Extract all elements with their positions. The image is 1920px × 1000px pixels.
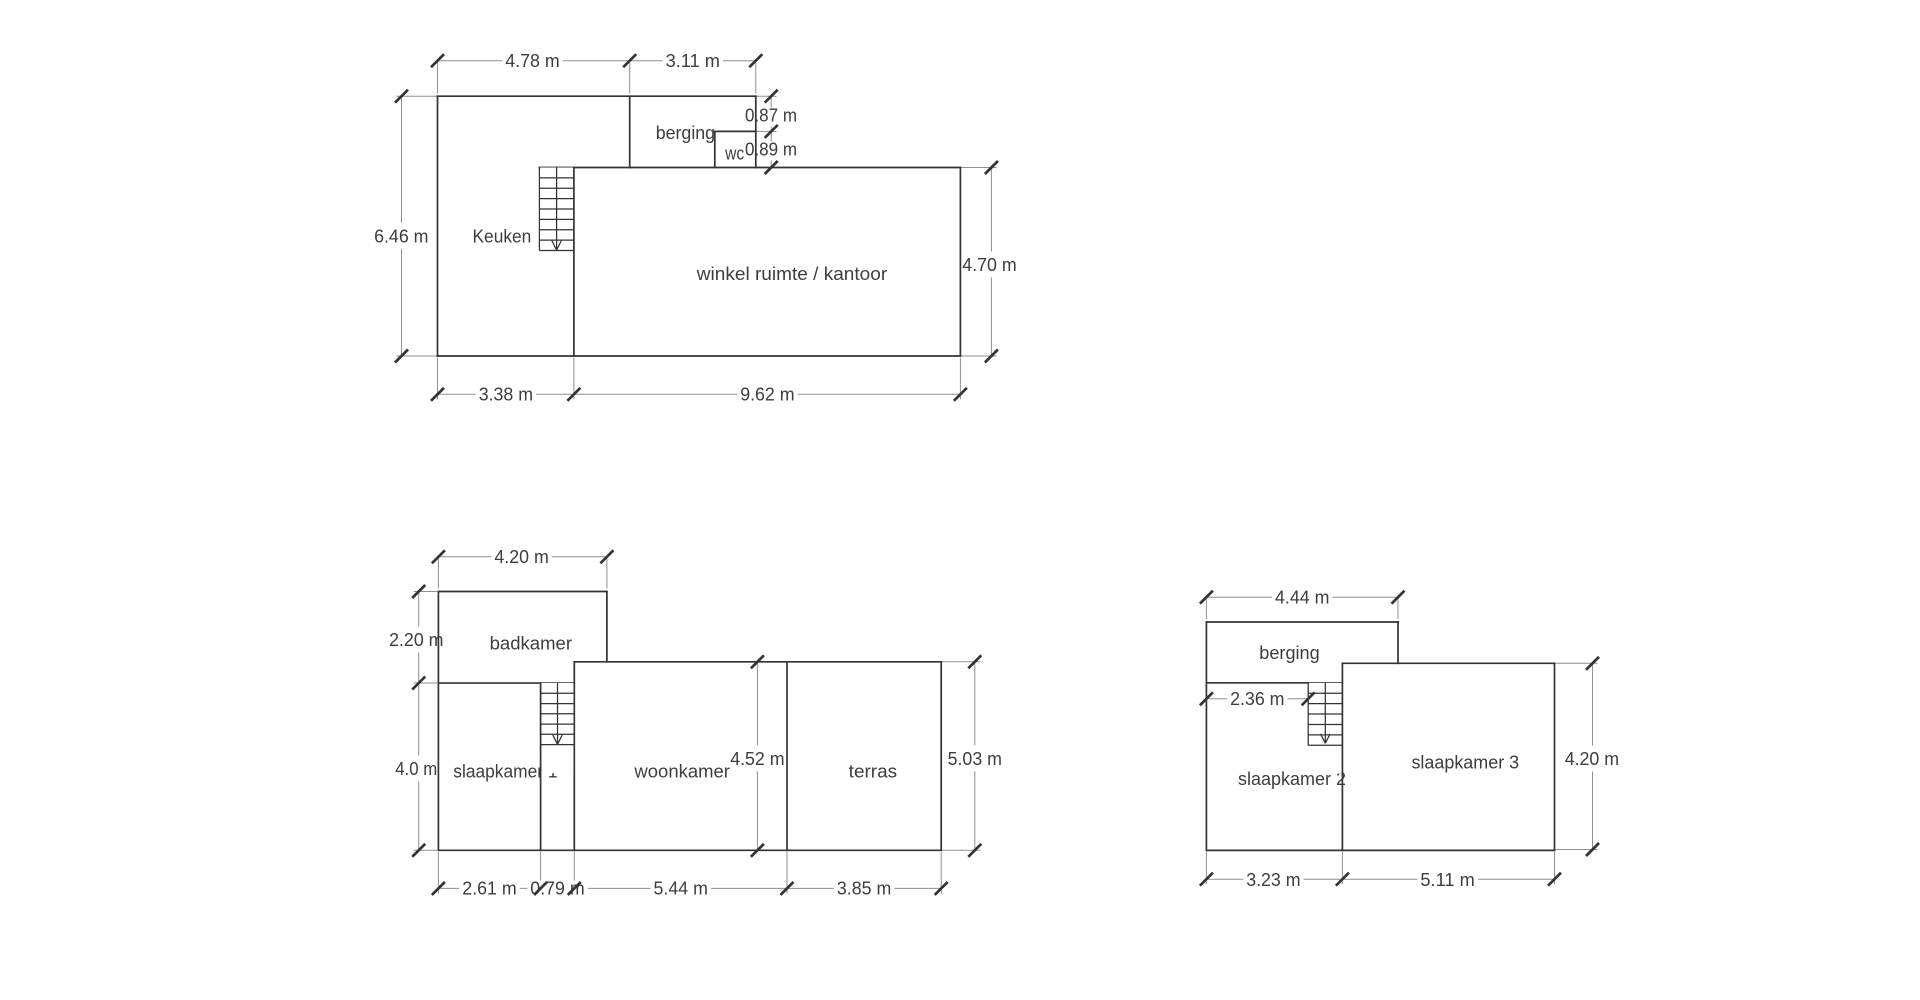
dimension label 2.20 m bbox=[386, 627, 446, 653]
svg-text:4.44 m: 4.44 m bbox=[1275, 588, 1329, 608]
wall: berging bottom / slaapkamer 2 top bbox=[1206, 682, 1342, 684]
dimension label 3.38 m bbox=[476, 385, 536, 406]
tick right dim bottom bbox=[1586, 843, 1599, 856]
wall: slaapkamer 2 - 3 separation bbox=[1341, 663, 1343, 850]
wall: plan1 top bbox=[438, 95, 756, 97]
tick bottom dim middle bbox=[567, 388, 580, 401]
svg-text:5.44 m: 5.44 m bbox=[654, 879, 708, 899]
svg-text:4.20 m: 4.20 m bbox=[1565, 749, 1619, 769]
extension line slaapkamer3 top-right bbox=[1555, 662, 1598, 664]
dimension line right (5.03 m) bbox=[974, 662, 976, 851]
wall: winkel ruimte top / berging bottom bbox=[539, 167, 960, 169]
dimension label 4.78 m bbox=[502, 51, 562, 72]
tick 2.36 dim right bbox=[1302, 692, 1315, 705]
dimension line top (4.44 m) bbox=[1206, 596, 1398, 598]
dimension label 3.85 m bbox=[834, 879, 894, 900]
tick small dim top bbox=[765, 90, 778, 103]
svg-text:3.38 m: 3.38 m bbox=[479, 385, 533, 405]
tick bottom dim 5 bbox=[935, 882, 948, 895]
tick bottom dim right bbox=[954, 388, 967, 401]
svg-text:5.11 m: 5.11 m bbox=[1420, 870, 1474, 890]
svg-text:4.70 m: 4.70 m bbox=[962, 255, 1016, 275]
dimension label 0.87 m bbox=[742, 106, 800, 127]
wall: wc top bbox=[715, 130, 756, 132]
tick bottom dim left bbox=[431, 388, 444, 401]
tick small dim middle bbox=[765, 125, 778, 138]
tick right dim top bbox=[1586, 657, 1599, 670]
extension line winkel bottom-right bbox=[960, 355, 996, 357]
dimension label 2.36 m bbox=[1227, 689, 1287, 710]
wall: plan1 bottom bbox=[438, 355, 961, 357]
svg-text:4.78 m: 4.78 m bbox=[505, 51, 559, 71]
extension line at berging right wall bbox=[755, 63, 757, 94]
tick 4.52 dim top bbox=[751, 655, 764, 668]
svg-text:0.87 m: 0.87 m bbox=[745, 106, 797, 126]
tick top dim right bbox=[1392, 591, 1405, 604]
extension line bottom at left wall bbox=[437, 852, 439, 894]
tick top dim right bbox=[600, 550, 613, 563]
dimension label 5.44 m bbox=[651, 879, 711, 900]
extension line stairs left edge bbox=[1307, 685, 1309, 704]
extension line bottom at right wall bbox=[1554, 852, 1556, 884]
dimension label 9.62 m bbox=[737, 385, 797, 406]
extension line bottom-left corner bbox=[414, 849, 437, 851]
tick left dim top bbox=[412, 585, 425, 598]
svg-text:5.03 m: 5.03 m bbox=[948, 749, 1002, 769]
dimension label 6.46 m bbox=[371, 223, 431, 249]
extension line bottom at terras right bbox=[940, 852, 942, 894]
svg-text:wc: wc bbox=[724, 143, 744, 163]
wall: badkamer bottom / slaapkamer 1 top bbox=[438, 682, 574, 684]
dimension label 4.0 m bbox=[392, 756, 440, 782]
dimension line right (4.70 m) bbox=[990, 168, 992, 357]
svg-text:slaapkamer 3: slaapkamer 3 bbox=[1411, 753, 1519, 773]
svg-text:badkamer: badkamer bbox=[490, 634, 572, 654]
tick bottom dim 1 bbox=[432, 882, 445, 895]
wall: Keuken - winkel ruimte separation bbox=[573, 168, 575, 357]
svg-text:2.61 m: 2.61 m bbox=[462, 879, 516, 899]
tick 2.36 dim left bbox=[1200, 692, 1213, 705]
extension line bottom at winkel left wall bbox=[573, 358, 575, 400]
extension line badkamer top-right bbox=[606, 559, 608, 589]
extension line bottom at corridor left bbox=[540, 852, 542, 894]
extension line badkamer left top bbox=[414, 591, 437, 593]
extension line bottom at left wall bbox=[437, 358, 439, 400]
dimension line top (4.78 m / 3.11 m) bbox=[438, 60, 756, 62]
svg-text:4.0 m: 4.0 m bbox=[395, 759, 437, 779]
wall: badkamer top bbox=[438, 591, 607, 593]
dimension label 3.23 m bbox=[1243, 870, 1303, 891]
tick bottom dim 3 bbox=[568, 882, 581, 895]
wall: woonkamer left bbox=[573, 662, 575, 851]
dimension line small (0.87 m / 0.89 m) bbox=[770, 96, 772, 167]
extension line bottom at woonkamer left bbox=[573, 852, 575, 894]
dimension label 4.20 m bbox=[491, 547, 551, 568]
dimension label 4.44 m bbox=[1272, 588, 1332, 609]
svg-text:3.11 m: 3.11 m bbox=[666, 51, 720, 71]
svg-text:terras: terras bbox=[849, 762, 897, 782]
svg-text:0.89 m: 0.89 m bbox=[745, 140, 797, 160]
wall: woonkamer - terras separation bbox=[786, 662, 788, 851]
extension line terras bottom-right bbox=[941, 849, 980, 851]
extension line top wall right end bbox=[756, 95, 777, 97]
dimension label 4.70 m bbox=[959, 252, 1019, 278]
extension line wc top right bbox=[756, 130, 777, 132]
wall: berging top bbox=[1206, 621, 1398, 623]
tick bottom dim 4 bbox=[781, 882, 794, 895]
wall: plan3 left bbox=[1205, 622, 1207, 850]
extension line bottom at terras left bbox=[786, 852, 788, 894]
wall: plan2 left bbox=[437, 592, 439, 851]
dimension line left (2.20 m / 4.0 m) bbox=[418, 592, 420, 851]
dimension label 4.52 m bbox=[727, 745, 787, 771]
tick 5.03 dim top bbox=[968, 655, 981, 668]
extension line badkamer top-left bbox=[437, 559, 439, 589]
tick 4.52 dim bottom bbox=[751, 844, 764, 857]
wall: slaapkamer 3 top bbox=[1342, 662, 1554, 664]
tick bottom dim middle bbox=[1336, 873, 1349, 886]
dimension line top (4.20 m) bbox=[438, 556, 607, 558]
tick top dim left bbox=[1200, 591, 1213, 604]
dimension label 3.11 m bbox=[663, 51, 723, 72]
floor plan 2: first floor bbox=[386, 547, 1005, 899]
svg-text:4.52 m: 4.52 m bbox=[730, 749, 784, 769]
wall: plan1 left bbox=[437, 96, 439, 356]
extension line top-left corner bbox=[397, 95, 438, 97]
wall: woonkamer + terras top bbox=[574, 661, 941, 663]
wall: berging right bbox=[1397, 622, 1399, 663]
dimension line bottom (3.38 m / 9.62 m) bbox=[438, 393, 961, 395]
dimension label 0.89 m bbox=[742, 140, 800, 161]
tick top dim right bbox=[749, 54, 762, 67]
svg-text:6.46 m: 6.46 m bbox=[374, 226, 428, 246]
wall: wc left bbox=[714, 131, 716, 167]
tick left dim bottom bbox=[412, 844, 425, 857]
extension line at left wall top bbox=[437, 63, 439, 94]
dimension line bottom (3.23 m / 5.11 m) bbox=[1206, 878, 1554, 880]
extension line bottom-left corner bbox=[397, 355, 438, 357]
wall: plan3 bottom bbox=[1206, 849, 1554, 851]
stairs plan2 bbox=[541, 683, 575, 773]
tick left dim top bbox=[395, 90, 408, 103]
wall: slaapkamer 3 right bbox=[1554, 663, 1556, 850]
extension line slaapkamer left top bbox=[414, 682, 437, 684]
svg-text:berging: berging bbox=[656, 123, 715, 143]
wall: winkel ruimte right bbox=[959, 168, 961, 357]
dimension label 2.61 m bbox=[459, 879, 519, 900]
dimension line 2.36 m bbox=[1206, 698, 1308, 700]
svg-text:4.20 m: 4.20 m bbox=[494, 547, 548, 567]
dimension label 5.03 m bbox=[945, 745, 1005, 771]
extension line berging top-left bbox=[1205, 599, 1207, 619]
stairs plan1 (Keuken) bbox=[539, 168, 574, 279]
extension line bottom at winkel right wall bbox=[959, 358, 961, 400]
svg-text:9.62 m: 9.62 m bbox=[740, 385, 794, 405]
tick top dim left bbox=[431, 54, 444, 67]
dimension line left (6.46 m) bbox=[401, 96, 403, 356]
svg-text:3.23 m: 3.23 m bbox=[1246, 870, 1300, 890]
dimension line bottom (2.61/0.79/5.44/3.85) bbox=[438, 887, 941, 889]
tick bottom dim right bbox=[1548, 873, 1561, 886]
extension line bottom at middle wall bbox=[1341, 852, 1343, 884]
dimension label 4.20 m bbox=[1562, 746, 1622, 772]
wall: terras right bbox=[940, 662, 942, 851]
wall: berging left bbox=[629, 96, 631, 167]
tick bottom dim left bbox=[1200, 873, 1213, 886]
wall: corridor left bbox=[540, 683, 542, 850]
tick right dim bottom bbox=[985, 350, 998, 363]
tick bottom dim 2 bbox=[534, 882, 547, 895]
svg-text:berging: berging bbox=[1259, 643, 1319, 663]
svg-text:2.36 m: 2.36 m bbox=[1230, 689, 1284, 709]
svg-text:woonkamer: woonkamer bbox=[633, 762, 730, 782]
svg-text:winkel ruimte / kantoor: winkel ruimte / kantoor bbox=[696, 264, 887, 284]
extension line terras top-right bbox=[941, 661, 980, 663]
stairs plan3 bbox=[1308, 683, 1342, 774]
wall: badkamer right bbox=[606, 592, 608, 662]
tick left dim middle bbox=[412, 677, 425, 690]
tick right dim top bbox=[985, 161, 998, 174]
dimension label 5.11 m bbox=[1417, 870, 1477, 891]
extension line winkel top-right bbox=[960, 167, 996, 169]
tick top dim middle bbox=[623, 54, 636, 67]
svg-text:3.85 m: 3.85 m bbox=[837, 879, 891, 899]
extension line berging top-right bbox=[1397, 599, 1399, 619]
tick small dim bottom bbox=[765, 161, 778, 174]
tick left dim bottom bbox=[395, 350, 408, 363]
tick 5.03 dim bottom bbox=[968, 844, 981, 857]
tick top dim left bbox=[432, 550, 445, 563]
dimension line right (4.20 m) bbox=[1592, 663, 1594, 849]
wall: berging right bbox=[755, 96, 757, 167]
svg-text:Keuken: Keuken bbox=[473, 226, 532, 246]
dimension label 0.79 m bbox=[527, 879, 587, 900]
floor plan 3: second floor bbox=[1200, 588, 1622, 891]
extension line bottom at left wall bbox=[1205, 852, 1207, 884]
floor plan 1: ground floor bbox=[371, 51, 1020, 405]
extension line at berging left wall bbox=[629, 63, 631, 94]
extension line slaapkamer3 bottom-right bbox=[1555, 849, 1598, 851]
svg-text:2.20 m: 2.20 m bbox=[389, 630, 443, 650]
wall: plan2 bottom bbox=[438, 849, 941, 851]
dimension line woonkamer (4.52 m) bbox=[756, 662, 758, 851]
